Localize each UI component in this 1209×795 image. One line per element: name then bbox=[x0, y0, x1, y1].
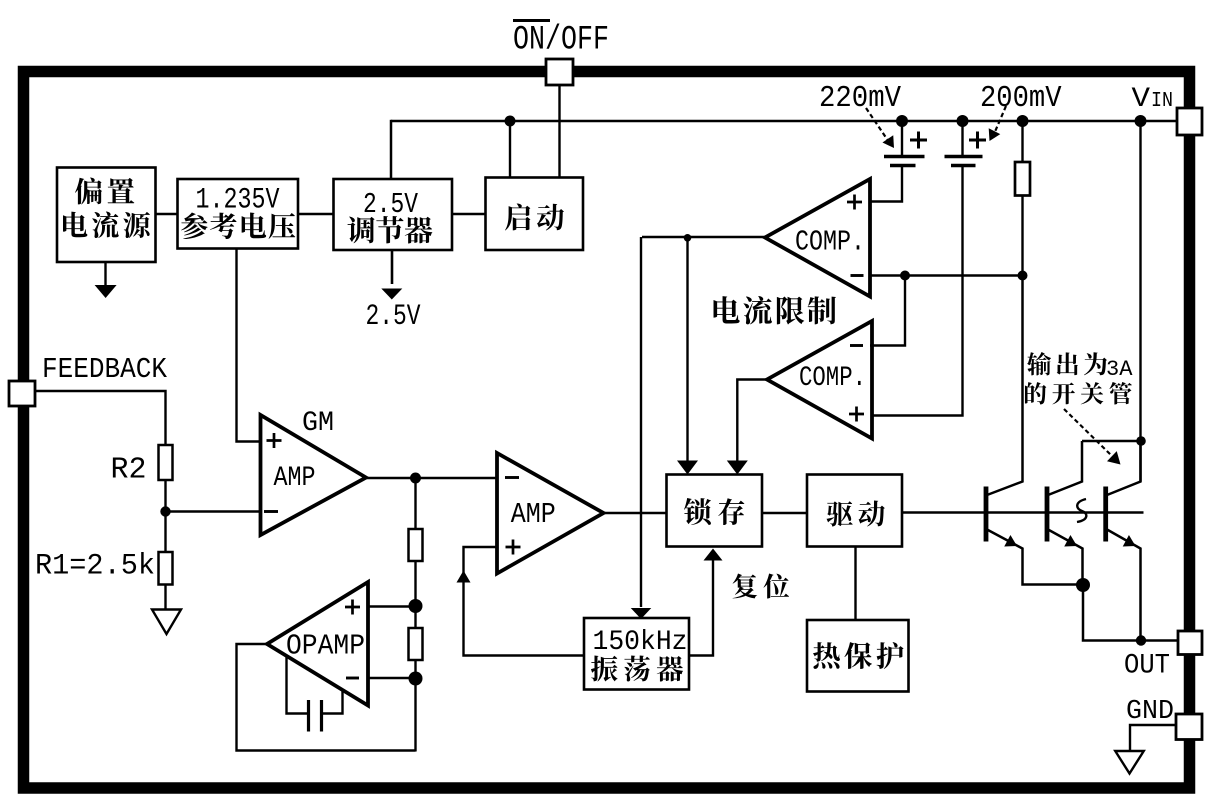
pin + of GM amp bbox=[267, 433, 282, 448]
label VIN pin name bbox=[1132, 84, 1174, 115]
junction sense node on resistor lead bbox=[1018, 271, 1028, 281]
wire PWM amp output to latch bbox=[604, 512, 668, 514]
battery B2 200mV offset bbox=[945, 157, 983, 166]
arrow comparator1 into latch bbox=[677, 461, 698, 475]
wire oscillator output to PWM amp + input bbox=[464, 547, 585, 656]
wire ON/OFF pad down to startup block bbox=[558, 85, 560, 178]
pin + of comparator1 bbox=[847, 195, 862, 210]
wire sense resistor bottom lead bbox=[1021, 196, 1023, 277]
label 热保护 bbox=[813, 642, 904, 669]
wire Q2 emitter bbox=[1048, 530, 1083, 586]
pin - of opamp bbox=[346, 677, 359, 680]
svg-text:V: V bbox=[1132, 84, 1151, 115]
block startup 启动 bbox=[486, 178, 584, 251]
junction GM output node bbox=[410, 473, 421, 484]
wire capacitor left lead bbox=[287, 656, 308, 714]
arrow annotation switch transistor bbox=[1064, 409, 1125, 470]
pin - of PWM amp bbox=[505, 476, 519, 479]
wire R2 to node bbox=[164, 480, 166, 553]
svg-text:2.5V: 2.5V bbox=[363, 188, 418, 221]
pin - of GM amp bbox=[264, 510, 278, 513]
pin pad ON/OFF bbox=[546, 59, 573, 85]
wire bias to reference bbox=[156, 213, 179, 215]
svg-text:OPAMP: OPAMP bbox=[286, 630, 365, 663]
wire battery2 top lead bbox=[961, 121, 963, 156]
wire GND pad to ground bbox=[1130, 725, 1176, 752]
label 电流限制 bbox=[714, 296, 836, 325]
wire transistor Q2 collector across bbox=[1082, 440, 1141, 443]
wire oscillator reset to latch bbox=[689, 560, 713, 656]
comparator U2 current limit bbox=[767, 321, 872, 439]
label 复位 bbox=[733, 573, 790, 598]
svg-text:3A: 3A bbox=[1106, 357, 1133, 382]
wire divider node to GM amp - input bbox=[166, 510, 260, 512]
wire opamp feedback loop bbox=[237, 644, 416, 751]
pin + of comparator2 bbox=[849, 407, 864, 422]
arrow Q1 emitter bbox=[1004, 535, 1020, 552]
arrow into oscillator top bbox=[631, 608, 652, 619]
pin + of opamp bbox=[345, 600, 360, 615]
label 振荡器 bbox=[591, 656, 683, 682]
arrow reset up into latch bbox=[704, 549, 723, 561]
label 参考电压 bbox=[181, 213, 295, 239]
junction comparator2 - branch bbox=[900, 271, 910, 281]
block oscillator 150kHz 振荡器 bbox=[584, 618, 689, 690]
arrow annotation 200mV to battery bbox=[984, 106, 1006, 144]
junction rail battery1 bbox=[896, 115, 908, 127]
arrow Q2 emitter bbox=[1064, 535, 1080, 552]
arrow bias block down bbox=[95, 285, 117, 298]
block thermal protection 热保护 bbox=[807, 620, 909, 692]
pin pad FEEDBACK bbox=[9, 381, 35, 406]
junction opamp - node bbox=[409, 672, 423, 686]
wire latch to driver bbox=[762, 512, 807, 514]
label 启动 bbox=[505, 204, 564, 231]
label 锁存 bbox=[684, 498, 744, 525]
junction divider node bbox=[160, 506, 170, 516]
arrow annotation 220mV to battery bbox=[866, 108, 899, 152]
transistor Q3 output switch base bar bbox=[1103, 487, 1108, 542]
block driver 驱动 bbox=[807, 475, 902, 547]
wire feedback to divider bbox=[35, 391, 166, 446]
wire comparator2 down into latch bbox=[737, 380, 767, 462]
wire emitters node down to OUT bbox=[1083, 585, 1178, 641]
junction OUT node bbox=[1136, 635, 1146, 645]
label + of battery2 bbox=[969, 132, 986, 149]
op-amp PWM comparator AMP bbox=[497, 453, 604, 574]
wire capacitor right lead bbox=[323, 691, 343, 714]
wire Q3 emitter bbox=[1107, 530, 1141, 641]
svg-text:IN: IN bbox=[1151, 90, 1173, 113]
resistor R3 current sense bbox=[1015, 162, 1030, 196]
wire driver output base line bbox=[902, 511, 1144, 514]
wire resistor to opamp + node bbox=[414, 561, 416, 629]
op-amp GM error amplifier bbox=[261, 415, 367, 535]
wire comparator1 output down to oscillator bbox=[640, 237, 642, 607]
junction emitters node bbox=[1076, 578, 1090, 592]
label 驱动 bbox=[827, 501, 885, 527]
label ON/OFF pin name with overline bbox=[513, 21, 609, 60]
wire regulator to startup bbox=[452, 213, 486, 215]
arrow up on oscillator to amp wire bbox=[457, 571, 471, 583]
pin - of comparator2 bbox=[850, 344, 863, 347]
wire rail down to startup block bbox=[509, 121, 511, 178]
ground symbol GND bbox=[1115, 751, 1144, 774]
resistor R1 bbox=[159, 552, 173, 585]
label + of battery1 bbox=[910, 132, 927, 149]
wire driver to thermal protection bbox=[854, 547, 856, 621]
wire opamp + input bbox=[368, 605, 416, 607]
resistor compensation lower bbox=[409, 628, 423, 660]
op-amp OPAMP buffer bbox=[267, 582, 368, 706]
svg-text:COMP.: COMP. bbox=[795, 226, 865, 259]
block bias current source 偏置电流源 bbox=[57, 168, 156, 263]
junction rail battery2 bbox=[957, 115, 969, 127]
transistor Q2 base bar bbox=[1045, 487, 1050, 542]
wire comparator1 output left bbox=[642, 236, 765, 238]
arrow comparator2 into latch bbox=[727, 461, 748, 475]
block latch 锁存 bbox=[667, 475, 763, 547]
transistor Q1 base bar bbox=[984, 487, 989, 542]
wire R1 to ground bbox=[164, 585, 166, 611]
label 电流源 bbox=[63, 212, 150, 238]
wire GM amp output bbox=[366, 477, 498, 479]
wire comparator2 + input bbox=[872, 167, 963, 416]
wire opamp - input bbox=[368, 677, 416, 679]
wire Q3 collector bbox=[1107, 441, 1141, 495]
arrow Q3 emitter bbox=[1123, 535, 1139, 552]
junction collector tee bbox=[1136, 436, 1146, 446]
resistor R2 bbox=[159, 445, 173, 480]
svg-text:2.5V: 2.5V bbox=[366, 300, 421, 334]
svg-text:FEEDBACK: FEEDBACK bbox=[42, 353, 168, 386]
junction rail to output collector bbox=[1135, 115, 1147, 127]
wire rail corner down to 2.5V regulator bbox=[390, 120, 393, 180]
svg-text:OUT: OUT bbox=[1124, 651, 1170, 682]
wire comparator2 - input bbox=[870, 276, 905, 346]
resistor compensation upper bbox=[409, 529, 423, 561]
pin - of comparator1 bbox=[851, 274, 864, 277]
block 2.5V regulator 调节器 bbox=[334, 179, 453, 250]
svg-text:GND: GND bbox=[1126, 697, 1174, 727]
capacitor compensation plates bbox=[309, 700, 322, 732]
svg-text:ON/OFF: ON/OFF bbox=[513, 22, 609, 60]
junction opamp + node bbox=[409, 599, 423, 613]
label 输出为3A bbox=[1027, 352, 1133, 382]
svg-text:200mV: 200mV bbox=[980, 81, 1062, 116]
label 偏置 bbox=[75, 177, 134, 204]
wire Q1 emitter bbox=[987, 530, 1083, 585]
wire reference down to GM amp + input bbox=[237, 249, 260, 442]
wire VIN down to output transistor collector bbox=[1139, 121, 1141, 482]
comparator U1 current limit bbox=[765, 179, 870, 297]
svg-text:COMP.: COMP. bbox=[799, 363, 866, 394]
block 1.235V reference 参考电压 bbox=[178, 179, 299, 249]
battery B1 220mV offset bbox=[884, 157, 925, 166]
ground symbol below R1 bbox=[152, 610, 181, 635]
pin pad OUT bbox=[1178, 631, 1202, 655]
junction rail sense resistor bbox=[1017, 115, 1029, 127]
pin + of PWM amp bbox=[506, 540, 521, 555]
arrow 2.5V output down bbox=[381, 289, 402, 300]
label 调节器 bbox=[347, 216, 432, 243]
junction comparator1 output tee bbox=[684, 234, 692, 242]
wire reference to regulator bbox=[298, 213, 334, 215]
svg-text:1.235V: 1.235V bbox=[196, 184, 280, 218]
wire resistor to opamp - node bbox=[414, 660, 416, 752]
current sense squiggle bbox=[1077, 499, 1086, 522]
pin pad GND bbox=[1176, 714, 1202, 740]
pin pad VIN bbox=[1177, 108, 1202, 135]
svg-text:AMP: AMP bbox=[511, 498, 556, 531]
wire battery1 bottom lead to comparator1 + input bbox=[870, 166, 902, 202]
wire Q2 collector bbox=[1048, 441, 1082, 495]
wire GM output node down bbox=[414, 478, 416, 530]
svg-text:AMP: AMP bbox=[274, 463, 316, 494]
junction rail to startup bbox=[505, 116, 516, 127]
svg-text:GM: GM bbox=[302, 408, 334, 439]
svg-text:220mV: 220mV bbox=[819, 81, 901, 116]
wire Q1 collector bbox=[987, 276, 1023, 495]
wire bias block down bbox=[104, 262, 106, 286]
svg-text:R1=2.5k: R1=2.5k bbox=[35, 550, 155, 584]
svg-text:R2: R2 bbox=[111, 453, 147, 488]
wire comparator1 down into latch bbox=[686, 238, 688, 461]
wire VIN rail horizontal bbox=[391, 120, 1178, 123]
wire battery1 top lead bbox=[901, 121, 903, 156]
label 的开关管 bbox=[1025, 382, 1132, 405]
wire regulator down output bbox=[391, 250, 394, 284]
wire sense resistor top lead bbox=[1021, 121, 1023, 163]
svg-text:150kHz: 150kHz bbox=[593, 627, 688, 658]
wire comparator1 - input to sense node bbox=[870, 274, 1023, 276]
